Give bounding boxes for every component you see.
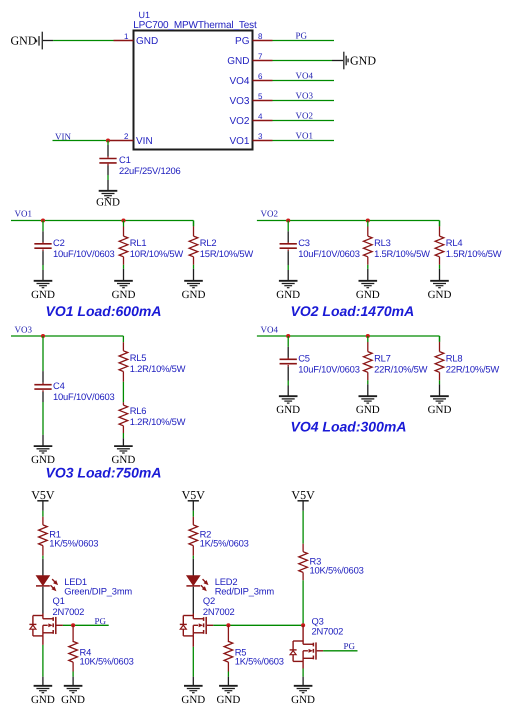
resistor RL5 1.2R/10%/5W <box>119 342 186 382</box>
wire R1 to LED1 <box>42 556 44 576</box>
capacitor C3 10uF/10V/0603 <box>280 221 360 266</box>
ground RL1 <box>112 269 136 301</box>
svg-text:Green/DIP_3mm: Green/DIP_3mm <box>64 585 132 596</box>
junction VO3/C4 <box>41 334 45 338</box>
svg-text:VO3: VO3 <box>15 324 33 334</box>
svg-text:GND: GND <box>350 54 376 68</box>
pin 2 VIN <box>108 132 153 147</box>
pin 8 PG <box>235 32 272 47</box>
ground C3 <box>276 270 300 301</box>
svg-text:22R/10%/5W: 22R/10%/5W <box>446 364 500 375</box>
pin 3 VO1 <box>229 132 272 147</box>
svg-text:VO3: VO3 <box>229 96 249 107</box>
junction VO2/RL3 <box>366 218 370 222</box>
power port V5V (column 1) <box>31 488 55 511</box>
svg-text:15R/10%/5W: 15R/10%/5W <box>200 248 254 259</box>
svg-text:RL6: RL6 <box>130 405 147 416</box>
svg-text:GND: GND <box>216 694 240 706</box>
svg-text:RL4: RL4 <box>446 237 463 248</box>
svg-text:RL1: RL1 <box>130 237 147 248</box>
svg-text:VO1: VO1 <box>15 209 33 219</box>
svg-text:10R/10%/5W: 10R/10%/5W <box>130 248 184 259</box>
wire RL3 to ground <box>367 265 369 269</box>
wire C5 to ground <box>287 381 289 386</box>
ground Q3 <box>291 677 315 706</box>
svg-text:1.5R/10%/5W: 1.5R/10%/5W <box>446 248 502 259</box>
svg-text:U1: U1 <box>139 10 151 20</box>
svg-text:GND: GND <box>112 289 136 301</box>
svg-text:GND: GND <box>428 404 452 416</box>
ground Q2 <box>181 677 205 706</box>
svg-text:C3: C3 <box>298 237 310 248</box>
svg-text:VO3 Load:750mA: VO3 Load:750mA <box>46 465 162 481</box>
resistor R5 1K/5%/0603 <box>224 625 284 671</box>
pin 4 VO2 <box>229 112 272 127</box>
capacitor C4 10uF/10V/0603 <box>34 336 114 402</box>
ground RL3 <box>356 269 380 301</box>
wire V5V to R1 <box>42 511 44 517</box>
pin 5 VO3 <box>229 92 272 107</box>
power port V5V (column 3) <box>291 488 315 511</box>
resistor RL6 1.2R/10%/5W <box>119 402 186 433</box>
wire Q3 gate PG <box>323 650 357 652</box>
wire GND (pin 7) <box>273 60 344 62</box>
svg-text:C5: C5 <box>298 353 310 364</box>
svg-text:V5V: V5V <box>291 488 315 502</box>
wire R3 to Q3 drain <box>302 580 304 625</box>
svg-text:VO1: VO1 <box>296 131 314 141</box>
svg-text:GND: GND <box>182 289 206 301</box>
resistor R1 1K/5%/0603 <box>39 517 99 556</box>
wire VO3 row <box>11 336 123 342</box>
svg-text:RL2: RL2 <box>200 237 217 248</box>
svg-text:PG: PG <box>235 36 250 47</box>
svg-text:VO2 Load:1470mA: VO2 Load:1470mA <box>291 303 415 319</box>
svg-text:2N7002: 2N7002 <box>312 625 344 636</box>
svg-text:22uF/25V/1206: 22uF/25V/1206 <box>119 165 181 176</box>
svg-text:6: 6 <box>258 72 263 81</box>
wire RL1 to ground <box>123 265 125 269</box>
svg-text:1.2R/10%/5W: 1.2R/10%/5W <box>130 363 186 374</box>
power port GND (pin 7) <box>344 52 377 70</box>
wire C1 to ground <box>107 175 109 180</box>
pin 7 GND <box>227 52 272 67</box>
ground C1 <box>96 180 120 209</box>
svg-text:VO1 Load:600mA: VO1 Load:600mA <box>46 303 162 319</box>
svg-text:VO4 Load:300mA: VO4 Load:300mA <box>291 418 407 434</box>
wire LED1 to Q1 <box>42 587 44 614</box>
svg-text:10K/5%/0603: 10K/5%/0603 <box>80 656 134 667</box>
svg-text:Q1: Q1 <box>53 595 65 606</box>
resistor R2 1K/5%/0603 <box>189 517 249 556</box>
ground R4 <box>61 677 85 706</box>
svg-text:PG: PG <box>344 641 356 651</box>
resistor RL4 1.5R/10%/5W <box>435 221 502 265</box>
svg-text:10uF/10V/0603: 10uF/10V/0603 <box>53 391 115 402</box>
resistor RL8 22R/10%/5W <box>435 336 499 380</box>
op-amp/IC U1 LPC700_MPWThermal_Test <box>133 10 257 150</box>
wire RL8 to ground <box>439 380 441 384</box>
wire VO4 row <box>257 336 440 342</box>
svg-text:1: 1 <box>124 32 129 41</box>
wire VO2 row <box>257 221 440 227</box>
svg-text:VO2: VO2 <box>261 209 279 219</box>
wire Q1 gate PG <box>63 624 109 626</box>
junction R5 tap <box>226 623 230 627</box>
wire VO1 row <box>11 221 194 227</box>
svg-text:VO4: VO4 <box>296 71 314 81</box>
transistor Q1 2N7002 <box>29 595 84 636</box>
svg-text:GND: GND <box>227 56 249 67</box>
resistor R4 10K/5%/0603 <box>69 625 134 671</box>
svg-text:5: 5 <box>258 92 263 101</box>
resistor RL1 10R/10%/5W <box>119 221 183 265</box>
junction Q3 drain <box>301 623 305 627</box>
junction VO4/C5 <box>286 334 290 338</box>
svg-text:1K/5%/0603: 1K/5%/0603 <box>200 538 249 549</box>
wire RL2 to ground <box>193 265 195 269</box>
svg-text:10uF/10V/0603: 10uF/10V/0603 <box>298 248 360 259</box>
power port GND (pin 1) <box>11 32 54 50</box>
svg-text:VO4: VO4 <box>229 76 249 87</box>
svg-text:V5V: V5V <box>182 488 206 502</box>
ground R5 <box>216 677 240 706</box>
transistor Q2 2N7002 <box>180 595 235 636</box>
svg-text:C2: C2 <box>53 237 65 248</box>
svg-text:Red/DIP_3mm: Red/DIP_3mm <box>215 585 275 596</box>
svg-text:PG: PG <box>95 616 107 626</box>
ground RL6 <box>111 438 135 466</box>
svg-text:RL3: RL3 <box>374 237 391 248</box>
svg-text:10K/5%/0603: 10K/5%/0603 <box>310 565 364 576</box>
svg-text:GND: GND <box>356 404 380 416</box>
svg-text:GND: GND <box>11 34 37 48</box>
svg-text:8: 8 <box>258 32 263 41</box>
LED LED1 Green/DIP_3mm <box>36 576 132 597</box>
resistor RL2 15R/10%/5W <box>189 221 253 265</box>
wire R4 to ground <box>72 672 74 677</box>
svg-text:4: 4 <box>258 112 263 121</box>
svg-text:RL7: RL7 <box>374 353 391 364</box>
capacitor C5 10uF/10V/0603 <box>280 336 360 381</box>
svg-text:1K/5%/0603: 1K/5%/0603 <box>235 656 284 667</box>
svg-text:2N7002: 2N7002 <box>53 606 85 617</box>
wire R2 to LED2 <box>192 556 194 576</box>
wire VO1 (right) <box>273 140 335 142</box>
svg-text:1K/5%/0603: 1K/5%/0603 <box>49 538 98 549</box>
svg-text:RL5: RL5 <box>130 352 147 363</box>
svg-text:V5V: V5V <box>31 488 55 502</box>
svg-text:VIN: VIN <box>136 136 153 147</box>
svg-text:C1: C1 <box>119 154 131 165</box>
wire C2 to ground <box>42 265 44 270</box>
svg-text:GND: GND <box>181 694 205 706</box>
wire RL5 to RL6 <box>122 382 124 403</box>
ground RL8 <box>428 384 452 416</box>
resistor RL3 1.5R/10%/5W <box>364 221 431 265</box>
svg-text:GND: GND <box>96 197 120 209</box>
wire LED2 to Q2 <box>192 587 194 614</box>
wire VO4 (right) <box>273 80 335 82</box>
wire VO2 (right) <box>273 120 335 122</box>
junction VO1/RL1 <box>121 218 125 222</box>
ground C2 <box>31 270 55 301</box>
svg-text:RL8: RL8 <box>446 353 463 364</box>
svg-text:1.5R/10%/5W: 1.5R/10%/5W <box>374 248 430 259</box>
svg-text:VO3: VO3 <box>296 91 314 101</box>
svg-text:GND: GND <box>31 289 55 301</box>
resistor RL7 22R/10%/5W <box>364 336 428 380</box>
ground RL4 <box>428 269 452 301</box>
junction VO2/C3 <box>286 218 290 222</box>
svg-text:3: 3 <box>258 132 263 141</box>
ground Q1 <box>31 677 55 706</box>
capacitor C1 22uF/25V/1206 <box>99 141 180 177</box>
svg-text:GND: GND <box>276 404 300 416</box>
wire PG (pin 8) <box>273 40 335 42</box>
wire RL4 to ground <box>439 265 441 269</box>
wire Q1 source to ground <box>42 636 44 677</box>
svg-text:1.2R/10%/5W: 1.2R/10%/5W <box>130 416 186 427</box>
svg-text:10uF/10V/0603: 10uF/10V/0603 <box>298 364 360 375</box>
svg-text:Q2: Q2 <box>203 595 215 606</box>
wire V5V to R3 <box>302 511 304 544</box>
wire Q2 gate to Q3 drain <box>213 624 303 626</box>
svg-text:VO2: VO2 <box>229 116 249 127</box>
svg-text:VO2: VO2 <box>296 111 314 121</box>
junction VO1/C2 <box>41 218 45 222</box>
svg-text:VO4: VO4 <box>261 324 279 334</box>
svg-text:GND: GND <box>276 289 300 301</box>
ground C5 <box>276 386 300 417</box>
ground RL7 <box>356 384 380 416</box>
svg-text:GND: GND <box>291 694 315 706</box>
wire C4 to ground <box>42 402 44 435</box>
svg-text:VO1: VO1 <box>229 136 249 147</box>
wire C3 to ground <box>287 265 289 270</box>
ground RL2 <box>182 269 206 301</box>
svg-text:2N7002: 2N7002 <box>203 606 235 617</box>
svg-text:GND: GND <box>61 694 85 706</box>
svg-text:GND: GND <box>356 289 380 301</box>
junction VO4/RL7 <box>366 334 370 338</box>
svg-text:C4: C4 <box>53 380 65 391</box>
svg-text:GND: GND <box>31 694 55 706</box>
wire RL7 to ground <box>367 380 369 384</box>
transistor Q3 2N7002 <box>290 615 344 661</box>
resistor R3 10K/5%/0603 <box>299 544 364 581</box>
svg-text:22R/10%/5W: 22R/10%/5W <box>374 364 428 375</box>
power port V5V (column 2) <box>182 488 206 511</box>
pin 1 GND <box>114 32 159 47</box>
ground C4 <box>31 435 55 466</box>
wire R5 to ground <box>227 672 229 677</box>
wire V5V to R2 <box>192 511 194 517</box>
capacitor C2 10uF/10V/0603 <box>34 221 114 266</box>
svg-text:10uF/10V/0603: 10uF/10V/0603 <box>53 248 115 259</box>
wire Q2 source to ground <box>192 636 194 677</box>
wire RL6 to ground <box>122 433 124 438</box>
pin 6 VO4 <box>229 72 272 87</box>
junction VIN/C1 <box>106 138 110 142</box>
svg-text:PG: PG <box>296 31 308 41</box>
svg-text:GND: GND <box>428 289 452 301</box>
LED LED2 Red/DIP_3mm <box>186 576 274 597</box>
svg-text:LPC700_MPWThermal_Test: LPC700_MPWThermal_Test <box>133 20 257 31</box>
wire Q3 source to ground <box>302 661 304 676</box>
svg-text:GND: GND <box>136 36 158 47</box>
wire VO3 (right) <box>273 100 335 102</box>
svg-text:7: 7 <box>258 52 263 61</box>
wire pin1 GND <box>53 40 113 42</box>
junction PG/R4 <box>71 623 75 627</box>
svg-text:2: 2 <box>124 132 129 141</box>
wire VIN <box>53 140 109 142</box>
